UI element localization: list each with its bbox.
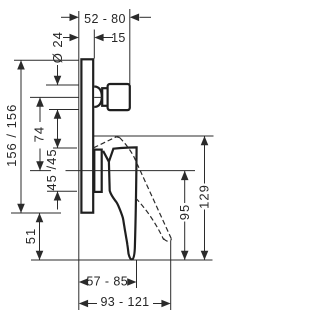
handle raised position (dashed) (94, 137, 172, 241)
wire pipe bottom tick (49, 109, 79, 111)
svg-text:Ø 24: Ø 24 (50, 31, 65, 63)
spout neck (102, 88, 107, 106)
wire wall extension line (78, 11, 80, 310)
dashed top edge (94, 137, 117, 148)
svg-text:51: 51 (23, 228, 38, 244)
wire bottom reference line (31, 259, 213, 261)
dimension 129 (201, 136, 209, 260)
wire 93-121 right extension (170, 241, 172, 310)
handle hub (94, 150, 101, 192)
wire 45 bottom tick (47, 190, 77, 192)
spout cylinder (108, 84, 130, 110)
dimension 156/156 (17, 60, 25, 213)
svg-text:129: 129 (197, 184, 212, 209)
dashed apex edge (116, 136, 119, 139)
dashed left edge (136, 198, 164, 240)
svg-text:45 /45: 45 /45 (44, 148, 59, 190)
dashed right edge (120, 138, 172, 240)
dimension 93-121 (79, 300, 171, 308)
dimension 57-85 (79, 278, 137, 286)
wire handle top line (94, 135, 214, 137)
svg-text:156 / 156: 156 / 156 (4, 104, 19, 167)
dimension 51 (36, 213, 44, 260)
faucet body (81, 59, 136, 259)
handle lever (103, 147, 137, 259)
wire 45 top tick (53, 147, 77, 149)
dimension 74 (36, 97, 44, 170)
svg-text:95: 95 (177, 204, 192, 220)
wire 15 right extension (93, 30, 95, 59)
dimension 95 (181, 171, 189, 260)
svg-text:74: 74 (31, 126, 46, 142)
spout dome (94, 87, 102, 107)
wire plate bottom tick (11, 212, 61, 214)
wall plate (81, 59, 93, 212)
svg-text:15: 15 (111, 31, 126, 45)
dimension diameter 24 (54, 65, 62, 148)
wire pipe top tick (46, 84, 79, 86)
dimension 45/45 (54, 139, 62, 210)
dimension 52-80 (61, 14, 151, 22)
svg-text:57 - 85: 57 - 85 (86, 274, 128, 288)
wire pivot centerline right (66, 170, 196, 172)
wire 52-80 right extension (129, 9, 131, 84)
wire pipe centerline left (30, 96, 79, 98)
wire plate top tick (14, 59, 79, 61)
wire pivot centerline left (30, 170, 51, 172)
dimension 15 (63, 34, 113, 42)
dashed tip cap (164, 239, 172, 242)
wire 57-85 right extension (136, 260, 138, 288)
svg-text:93 - 121: 93 - 121 (100, 295, 149, 309)
svg-text:52 - 80: 52 - 80 (84, 12, 126, 26)
wire pipe centerline through dome (94, 96, 102, 98)
